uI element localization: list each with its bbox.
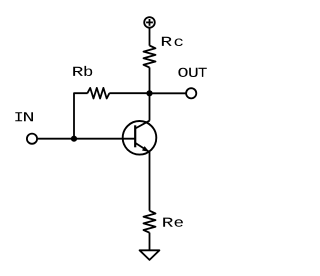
wire emitter to Re <box>149 152 151 211</box>
wire corner Rb branch <box>74 93 88 139</box>
wire Re to ground <box>149 233 151 251</box>
transistor Q1 <box>123 121 157 155</box>
wire Rb to collector node <box>109 92 149 94</box>
label Rb <box>73 66 92 76</box>
resistor Rc <box>144 46 156 68</box>
node collector junction <box>146 90 152 96</box>
terminal OUT <box>186 88 196 98</box>
wire Rc to collector node <box>149 67 151 93</box>
label Rc <box>162 37 183 46</box>
wire IN to base <box>38 138 135 140</box>
resistor Re <box>144 211 156 233</box>
node base junction <box>71 136 77 142</box>
wire power to Rc <box>149 28 151 45</box>
wire collector node down to transistor collector <box>149 93 151 120</box>
ground <box>140 250 160 260</box>
power supply V+ <box>144 17 155 28</box>
resistor Rb <box>87 88 109 99</box>
label Re <box>163 218 183 227</box>
label OUT <box>178 68 206 77</box>
terminal IN <box>27 134 37 144</box>
label IN <box>15 112 33 121</box>
wire collector node to OUT terminal <box>150 92 187 94</box>
